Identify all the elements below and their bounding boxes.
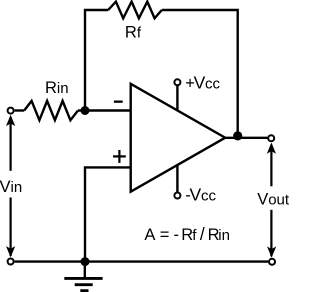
terminal: Vout + circle xyxy=(268,135,274,141)
terminal: Vin + input circle xyxy=(8,108,14,114)
wire: bottom ground rail xyxy=(15,260,268,262)
node: ground junction xyxy=(81,257,90,266)
wire: Vin terminal to Rin xyxy=(15,109,25,111)
op-amp U1 triangle xyxy=(131,84,226,192)
Vout measurement arrow (double headed) xyxy=(267,143,276,258)
plus sign (non-inverting input marker) xyxy=(113,155,126,157)
svg-text:-Vcc: -Vcc xyxy=(185,184,216,204)
terminal: Vin - circle xyxy=(8,259,14,265)
terminal: Vout - circle xyxy=(269,259,275,265)
wire: feedback loop right segment (Rf down to output node) xyxy=(162,10,238,138)
wire: op-amp output to Vout terminal xyxy=(224,137,268,139)
power terminal -Vcc circle xyxy=(174,193,180,199)
power stub -Vcc xyxy=(176,165,178,192)
Vin measurement arrow (double headed) xyxy=(6,115,15,258)
node: output junction xyxy=(233,131,242,140)
svg-text:+Vcc: +Vcc xyxy=(185,73,220,93)
ground symbol xyxy=(64,262,102,291)
wire: Rin to inverting node xyxy=(78,109,86,111)
svg-text:Vout: Vout xyxy=(257,190,290,208)
svg-text:Vin: Vin xyxy=(0,178,22,196)
resistor Rin xyxy=(24,101,78,120)
wire: non-inverting input (from ground branch corner to op-amp) xyxy=(85,167,132,262)
node: inverting input junction xyxy=(81,106,90,115)
svg-text:Rin: Rin xyxy=(45,79,69,97)
svg-text:Rf: Rf xyxy=(125,24,142,42)
power terminal +Vcc circle xyxy=(174,79,180,85)
power stub +Vcc xyxy=(176,86,178,112)
resistor Rf xyxy=(108,2,162,19)
wire: inverting node to op-amp input xyxy=(85,109,132,111)
wire: feedback loop left segment (inverting node up to Rf) xyxy=(85,10,108,112)
minus sign (inverting input marker) xyxy=(114,101,123,103)
